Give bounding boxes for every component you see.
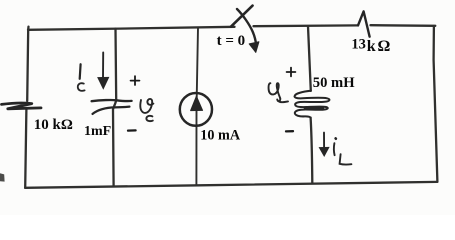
wire current-source branch — [196, 28, 198, 186]
wire top-right segment — [371, 24, 436, 27]
current arrow i_L — [319, 133, 328, 156]
wire top-left segment — [28, 27, 235, 30]
switch X stroke 1 — [231, 6, 253, 27]
minus sign capacitor polarity — [128, 129, 136, 132]
edge smudge bottom-left — [0, 173, 5, 181]
minus sign inductor polarity — [286, 130, 293, 132]
label i_L handwritten — [334, 138, 352, 164]
switch X stroke 2 with opening arrow curve — [237, 9, 256, 46]
wire inductor branch upper — [308, 26, 311, 91]
wire right edge — [434, 26, 438, 182]
inductor L1 coil — [295, 91, 330, 118]
node label v_L handwritten — [269, 83, 288, 102]
wire left edge upper — [27, 27, 28, 101]
wire top-middle segment — [254, 24, 359, 27]
wire capacitor branch — [113, 29, 116, 186]
svg-text:13: 13 — [351, 37, 366, 53]
resistor R1 10 kOhm squiggle — [2, 103, 42, 109]
svg-text:50 mH: 50 mH — [313, 75, 355, 91]
plus sign inductor polarity — [287, 68, 296, 77]
wire left edge lower — [25, 109, 26, 188]
plus sign capacitor polarity — [131, 76, 140, 85]
svg-text:t = 0: t = 0 — [217, 33, 246, 49]
svg-text:10 mA: 10 mA — [200, 128, 241, 144]
wire bottom edge — [25, 182, 437, 188]
capacitor C1 top plate — [92, 100, 132, 101]
capacitor C1 bottom plate — [93, 107, 130, 114]
switch arrowhead — [249, 42, 259, 53]
current arrow i_c — [98, 53, 109, 89]
node label v_c handwritten — [140, 99, 153, 121]
resistor R2 13 kOhm spike — [358, 11, 370, 36]
svg-text:10 kΩ: 10 kΩ — [34, 117, 73, 133]
current source I1 arrowhead — [191, 96, 203, 110]
current source I1 circle — [180, 93, 212, 126]
wire inductor branch lower — [311, 118, 313, 184]
svg-text:kΩ: kΩ — [367, 38, 392, 55]
label i_c handwritten — [78, 64, 85, 91]
svg-text:1mF: 1mF — [84, 124, 111, 139]
